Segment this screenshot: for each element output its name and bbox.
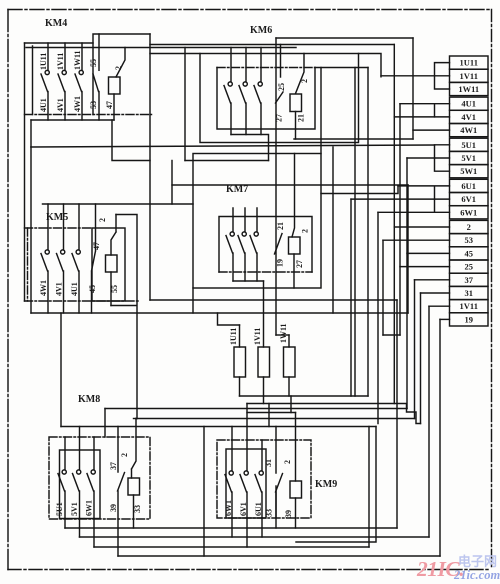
svg-text:1V11: 1V11 xyxy=(460,71,478,81)
svg-text:21: 21 xyxy=(297,114,306,122)
vertical x420 (31) xyxy=(420,293,422,424)
KM4 aux/coil box xyxy=(93,34,150,115)
wire terminal 4U1 stub xyxy=(400,104,450,117)
wire KM9 c2 down xyxy=(246,518,248,547)
svg-text:25: 25 xyxy=(277,83,286,91)
big box top xyxy=(61,426,376,428)
KM6 loop3 top ext xyxy=(150,53,200,55)
long vertical x150 xyxy=(149,34,151,300)
wire KM8 c2 down xyxy=(79,519,81,538)
KM9 main contact 2 xyxy=(246,404,248,471)
terminal 45 (row 15) xyxy=(450,247,489,260)
svg-text:1V11: 1V11 xyxy=(460,301,478,311)
terminal 5W1 (row 9) xyxy=(450,165,489,178)
KM4 left rail xyxy=(24,43,26,301)
wire terminal 6W1 stub xyxy=(378,199,450,212)
KM5 box top xyxy=(25,227,93,229)
wire x172 xyxy=(171,161,173,205)
terminal 1U11 (row 1) xyxy=(450,56,489,69)
svg-text:1V11: 1V11 xyxy=(253,328,262,345)
main top bus xyxy=(26,47,296,49)
wire x333 down xyxy=(332,147,334,313)
fuse FU3 top wire xyxy=(288,335,290,347)
wire x408 down xyxy=(407,185,409,313)
wire terminal 5V1 stub xyxy=(407,157,450,159)
wire terminal 6V1 stub xyxy=(351,198,450,200)
wire terminal 1W11 stub xyxy=(435,76,450,89)
svg-text:37: 37 xyxy=(465,275,474,285)
KM9 aux bottom wire xyxy=(275,486,277,528)
fuse FU1 bottom wire xyxy=(239,377,241,396)
svg-text:4V1: 4V1 xyxy=(56,98,65,112)
svg-text:1U11: 1U11 xyxy=(39,53,48,70)
terminal 2 (row 13) xyxy=(450,220,489,233)
KM8 coil xyxy=(128,478,140,495)
KM5 inner left edge xyxy=(27,228,29,301)
KM6 coil bottom wire xyxy=(295,112,297,140)
svg-text:4W1: 4W1 xyxy=(73,96,82,112)
wire x369 up xyxy=(368,427,370,548)
wire x61 down xyxy=(60,313,62,427)
KM6 coil feed wire xyxy=(296,54,305,94)
terminal 6U1 (row 10) xyxy=(450,179,489,192)
svg-text:6W1: 6W1 xyxy=(85,500,94,516)
KM4 contact-box left edge xyxy=(32,46,34,115)
svg-text:4V1: 4V1 xyxy=(461,112,476,122)
KM4 main contact 2 xyxy=(64,43,66,70)
KM5 aux/coil box xyxy=(92,228,125,301)
terminal 5V1 (row 8) xyxy=(450,151,489,164)
fuse FU2 xyxy=(258,347,270,377)
terminal 5U1 (row 7) xyxy=(450,138,489,151)
wire terminal 5W1 stub xyxy=(435,158,450,171)
vertical x383 (53) xyxy=(382,240,384,335)
svg-text:1U11: 1U11 xyxy=(229,328,238,345)
KM7 main contact 3 xyxy=(256,217,258,232)
KM4 box bottom xyxy=(25,114,152,116)
svg-text:19: 19 xyxy=(465,314,474,324)
vertical x378 (6W1) xyxy=(377,212,379,423)
wire KM8 c1 down xyxy=(64,519,66,529)
KM6 loop1 top xyxy=(150,44,394,46)
bus y139 xyxy=(294,138,413,140)
KM7 aux contact 21-19 blade xyxy=(275,234,283,255)
svg-text:1W11: 1W11 xyxy=(279,323,288,343)
KM6 aux contact 25-27 blade xyxy=(276,92,284,103)
fuse FU1 feed xyxy=(218,313,240,325)
svg-text:31: 31 xyxy=(465,288,474,298)
enclosure border left xyxy=(7,10,9,570)
vertical x355 xyxy=(354,68,356,397)
svg-text:1V11: 1V11 xyxy=(56,53,65,70)
svg-text:2: 2 xyxy=(98,218,107,222)
wire x413 to 4W1 xyxy=(412,38,414,139)
fuse FU3 bottom wire xyxy=(288,377,290,396)
wire terminal 25 stub xyxy=(400,266,450,268)
svg-text:KM5: KM5 xyxy=(46,212,68,223)
bus y408 xyxy=(105,408,407,410)
svg-text:45: 45 xyxy=(88,285,97,293)
KM7 coil feed wire xyxy=(292,154,295,238)
terminal 1V11 (row 19) xyxy=(450,300,489,313)
wire terminal 1V11b stub xyxy=(429,305,450,307)
KM6 aux feed wire xyxy=(276,37,413,39)
KM9 main contact 1 xyxy=(231,427,233,471)
svg-text:2: 2 xyxy=(120,453,129,457)
svg-text:5V1: 5V1 xyxy=(461,153,476,163)
svg-text:4W1: 4W1 xyxy=(39,280,48,296)
wire x31 down xyxy=(30,147,32,313)
terminal 53 (row 14) xyxy=(450,234,489,247)
KM5 main contact 2 xyxy=(63,204,65,250)
vertical x351 (6V1) xyxy=(350,199,352,396)
svg-text:6U1: 6U1 xyxy=(254,502,263,516)
KM6 loop3 xyxy=(200,54,359,143)
svg-text:47: 47 xyxy=(105,101,114,109)
wire terminal 19 stub xyxy=(440,318,450,320)
svg-text:5W1: 5W1 xyxy=(460,166,477,176)
svg-text:6V1: 6V1 xyxy=(239,502,248,516)
KM6 loop2 left xyxy=(184,48,186,161)
KM7 main contact 2 xyxy=(244,217,246,232)
wire terminal 37 stub xyxy=(415,279,450,281)
KM6 loop1 bottom xyxy=(172,184,408,186)
svg-text:5U1: 5U1 xyxy=(461,140,476,150)
svg-text:6W1: 6W1 xyxy=(460,207,477,217)
svg-text:4V1: 4V1 xyxy=(55,282,64,296)
KM5 aux contact 47-45 xyxy=(92,204,96,313)
terminal 37 (row 17) xyxy=(450,273,489,286)
KM5 main contact 3 xyxy=(78,204,80,250)
wire terminal 1U11 stub xyxy=(435,63,450,76)
KM4 main contact 1 xyxy=(47,43,49,70)
vertical x400 (25) xyxy=(399,104,401,335)
terminal 4W1 (row 6) xyxy=(450,124,489,137)
KM7 outer box xyxy=(193,154,321,289)
wire terminal 5U1 stub xyxy=(435,145,450,158)
wire terminal 1V11 stub xyxy=(381,75,450,77)
wire x269 down xyxy=(268,404,270,427)
vertical x440 (19) xyxy=(439,319,441,556)
bus y418 xyxy=(136,418,415,420)
svg-text:27: 27 xyxy=(295,260,304,268)
KM4 aux contact 55-53 xyxy=(98,34,100,70)
bus y556 xyxy=(118,555,440,557)
svg-text:47: 47 xyxy=(92,242,101,250)
KM7 coil xyxy=(289,237,301,254)
wire KM4 coil drop xyxy=(112,120,150,161)
svg-text:1U11: 1U11 xyxy=(460,58,478,68)
KM6 main contact 1 xyxy=(230,48,232,82)
svg-text:53: 53 xyxy=(89,101,98,109)
terminal 1V11 (row 2) xyxy=(450,69,489,82)
svg-text:25: 25 xyxy=(465,262,474,272)
svg-text:2: 2 xyxy=(283,460,292,464)
vertical x429 (1V11) xyxy=(428,306,430,537)
bus y547 xyxy=(94,546,369,548)
svg-text:KM6: KM6 xyxy=(250,25,272,36)
KM6 contacts bottom bus xyxy=(231,135,269,161)
bus y146 long xyxy=(31,145,435,147)
KM7 main contact 1 xyxy=(232,217,234,232)
fuse FU3 feed xyxy=(276,334,289,336)
fuse FU1 xyxy=(234,347,246,377)
fuse FU1 top wire xyxy=(239,325,241,347)
watermark 21IC dianziwang xyxy=(416,554,500,582)
svg-text:1W11: 1W11 xyxy=(458,84,479,94)
KM5 coil loop wire xyxy=(111,215,137,419)
bus y528 xyxy=(65,527,397,529)
KM8 coil bottom wire xyxy=(133,495,135,528)
KM6 main contact 2 xyxy=(245,48,247,82)
KM6 main contact 3 xyxy=(260,48,262,82)
svg-text:KM7: KM7 xyxy=(226,184,248,195)
KM7 main-contact box xyxy=(219,217,312,273)
KM5 coil xyxy=(106,255,118,272)
KM8 main contact 2 xyxy=(79,427,81,470)
KM8 main contact 1 xyxy=(64,437,66,470)
bus y300 xyxy=(150,299,397,301)
svg-text:21: 21 xyxy=(276,222,285,230)
wire terminal 45 stub xyxy=(407,252,450,254)
bus y412 xyxy=(247,412,296,414)
bus y313 xyxy=(31,312,408,314)
terminal 4V1 (row 5) xyxy=(450,110,489,123)
KM9 main contact 3 xyxy=(261,440,263,471)
svg-text:45: 45 xyxy=(465,248,474,258)
svg-text:53: 53 xyxy=(465,235,474,245)
svg-text:4U1: 4U1 xyxy=(39,98,48,112)
fuse FU2 top wire xyxy=(263,281,265,347)
terminal 25 (row 16) xyxy=(450,260,489,273)
KM5 box bottom xyxy=(25,300,139,302)
svg-text:39: 39 xyxy=(109,504,118,512)
fuse bottom bus xyxy=(240,395,369,397)
wire terminal 2 stub xyxy=(394,226,449,228)
fuse FU3 xyxy=(284,347,296,377)
svg-text:19: 19 xyxy=(276,259,285,267)
vertical x398 (6U1) xyxy=(321,186,398,194)
wire x136 jog xyxy=(134,418,138,420)
KM4 main contact 3 xyxy=(81,43,83,70)
terminal 1W11 (row 3) xyxy=(450,82,489,95)
KM7 top stubs xyxy=(233,208,257,217)
long vertical x276 (aux rail) xyxy=(275,38,277,335)
svg-text:33: 33 xyxy=(133,505,142,513)
svg-text:31: 31 xyxy=(264,459,273,467)
KM9 coil top wire xyxy=(295,413,297,482)
svg-text:6U1: 6U1 xyxy=(461,181,476,191)
big box right xyxy=(296,427,376,543)
terminal 4U1 (row 4) xyxy=(450,97,489,110)
svg-text:电子网: 电子网 xyxy=(458,554,497,569)
terminal 6V1 (row 11) xyxy=(450,193,489,206)
wire x105 down xyxy=(104,409,106,438)
KM8 aux contact 37-39 xyxy=(118,427,125,557)
KM7 left stub xyxy=(192,288,194,313)
fuse FU2 bottom wire xyxy=(263,377,265,396)
wire terminal 4V1 stub xyxy=(394,116,449,118)
svg-text:4U1: 4U1 xyxy=(461,99,476,109)
svg-text:21ic.com: 21ic.com xyxy=(453,568,500,582)
KM6 loop2 bottom xyxy=(185,160,269,162)
wire terminal 6U1 stub xyxy=(398,186,450,199)
svg-text:5U1: 5U1 xyxy=(55,502,64,516)
KM6 coil xyxy=(290,94,302,112)
vertical x397 xyxy=(396,300,398,528)
KM4 coil xyxy=(109,77,121,94)
terminal 31 (row 18) xyxy=(450,286,489,299)
bus y537 xyxy=(80,536,430,538)
svg-text:33: 33 xyxy=(265,509,274,517)
terminal 6W1 (row 12) xyxy=(450,206,489,219)
KM5 top bus y204 xyxy=(43,203,194,205)
staircase 31 to KM9 xyxy=(247,404,421,424)
svg-text:6W1: 6W1 xyxy=(224,500,233,516)
KM8 coil top wire xyxy=(132,419,137,479)
vertical x321 (KM7 corner up) xyxy=(320,68,322,154)
KM9 main-contact box xyxy=(226,449,266,518)
KM5 coil top wire xyxy=(111,215,116,256)
wire KM9 c1 down xyxy=(231,518,233,537)
wire terminal 31 stub xyxy=(421,292,450,294)
svg-text:KM8: KM8 xyxy=(78,394,100,405)
KM9 coil xyxy=(290,481,302,498)
KM5 coil bottom wire xyxy=(110,272,112,306)
KM7 coil bottom wire xyxy=(293,254,295,288)
KM8 box xyxy=(49,437,150,519)
KM9 aux contact 31-33 xyxy=(276,427,283,519)
svg-text:2: 2 xyxy=(301,229,310,233)
svg-text:6V1: 6V1 xyxy=(461,194,476,204)
wire F2 down xyxy=(263,396,265,404)
wire x291 drop xyxy=(290,396,292,413)
wire KM9 c3 down xyxy=(261,518,263,537)
vertical x394 long xyxy=(393,45,395,404)
svg-text:5V1: 5V1 xyxy=(70,502,79,516)
terminal 19 (row 20) xyxy=(450,313,489,326)
KM6 main-contact box xyxy=(217,68,315,130)
wire terminal 53 stub xyxy=(383,239,450,241)
KM6 aux pin-25 wire xyxy=(280,45,282,78)
KM4 top edge xyxy=(25,42,94,44)
KM9 coil bottom wire xyxy=(295,498,297,528)
KM5 main contact 1 xyxy=(47,204,49,250)
vertical x414 (37) xyxy=(414,280,416,419)
wire KM4 to y147 xyxy=(30,120,32,147)
KM4 bottom bus xyxy=(31,119,114,121)
svg-text:55: 55 xyxy=(89,59,98,67)
KM8 main contact 3 xyxy=(93,437,95,470)
svg-text:37: 37 xyxy=(109,462,118,470)
KM9 box xyxy=(217,440,311,518)
wire KM8 c3 down xyxy=(93,519,95,548)
wire terminal 4W1 stub xyxy=(413,129,450,131)
svg-text:39: 39 xyxy=(284,510,293,518)
KM8 main-contact box xyxy=(60,450,101,519)
KM4 coil bottom wire xyxy=(113,94,115,120)
KM7 contacts bottom bus xyxy=(233,280,264,282)
svg-text:2: 2 xyxy=(467,222,471,232)
svg-text:1W11: 1W11 xyxy=(73,50,82,70)
svg-text:KM4: KM4 xyxy=(45,18,67,29)
KM6 loop3 ext xyxy=(359,54,382,77)
enclosure border top xyxy=(8,9,491,11)
bus y335 xyxy=(383,334,400,336)
enclosure border bottom xyxy=(8,569,491,571)
KM4 coil top wire xyxy=(116,48,125,78)
vertical x368 xyxy=(367,68,369,397)
enclosure border right xyxy=(491,10,493,570)
svg-text:4W1: 4W1 xyxy=(460,125,477,135)
wire x204 frame xyxy=(203,427,205,557)
vertical x407 (5V1/45) xyxy=(406,158,408,409)
svg-text:4U1: 4U1 xyxy=(70,282,79,296)
KM6 box ext xyxy=(315,67,368,69)
svg-text:KM9: KM9 xyxy=(315,479,337,490)
